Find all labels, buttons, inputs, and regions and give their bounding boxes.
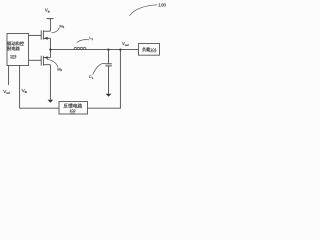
svg-text:制电路: 制电路 — [7, 45, 20, 52]
svg-text:C1: C1 — [89, 74, 94, 80]
svg-text:M1: M1 — [59, 23, 64, 29]
svg-text:Vfb: Vfb — [22, 88, 28, 94]
svg-text:L1: L1 — [89, 35, 93, 41]
svg-text:负载101: 负载101 — [142, 46, 157, 52]
svg-text:103: 103 — [10, 54, 16, 58]
svg-text:102: 102 — [69, 109, 75, 113]
svg-text:100: 100 — [158, 3, 166, 8]
svg-text:Vin: Vin — [45, 8, 51, 14]
svg-text:Vout: Vout — [122, 41, 129, 47]
svg-text:M2: M2 — [57, 66, 62, 72]
svg-text:Vref: Vref — [3, 89, 10, 95]
